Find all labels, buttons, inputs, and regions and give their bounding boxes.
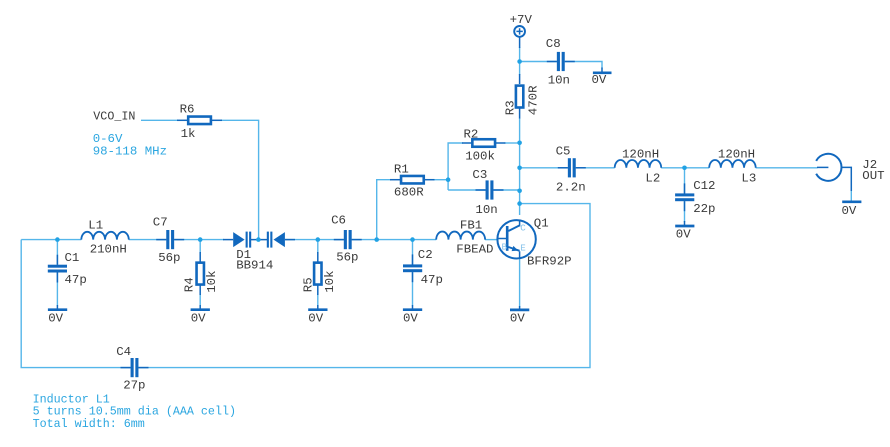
svg-text:Total width: 6mm: Total width: 6mm [33,417,145,431]
svg-text:2.2n: 2.2n [556,180,586,194]
svg-text:0V: 0V [48,312,63,326]
svg-text:47p: 47p [421,273,443,287]
svg-text:R6: R6 [180,102,195,116]
svg-text:10k: 10k [323,270,337,292]
svg-text:Q1: Q1 [534,216,549,230]
svg-text:56p: 56p [158,251,180,265]
svg-text:L1: L1 [88,219,103,233]
svg-text:C3: C3 [472,168,487,182]
svg-text:0V: 0V [842,204,857,218]
svg-text:0V: 0V [592,73,607,87]
svg-text:FB1: FB1 [460,219,482,233]
svg-text:C: C [520,223,526,234]
svg-text:0V: 0V [403,312,418,326]
svg-text:R3: R3 [503,100,517,115]
svg-text:R2: R2 [464,127,479,141]
svg-text:0V: 0V [510,311,525,325]
svg-text:10n: 10n [475,203,497,217]
svg-text:10k: 10k [205,270,219,292]
svg-text:0V: 0V [308,312,323,326]
svg-text:C6: C6 [331,213,346,227]
svg-text:1k: 1k [181,127,196,141]
svg-text:BFR92P: BFR92P [527,255,572,269]
svg-text:OUT: OUT [862,169,884,183]
svg-text:680R: 680R [394,186,424,200]
svg-text:120nH: 120nH [718,148,755,162]
svg-text:E: E [520,242,526,253]
svg-text:47p: 47p [65,273,87,287]
svg-text:R1: R1 [394,162,409,176]
svg-text:R4: R4 [183,277,197,292]
svg-text:C12: C12 [693,179,715,193]
svg-text:B: B [502,241,508,252]
svg-text:BB914: BB914 [236,258,273,272]
svg-text:22p: 22p [693,202,715,216]
svg-text:27p: 27p [123,379,145,393]
svg-text:FBEAD: FBEAD [456,243,493,257]
svg-text:C7: C7 [153,215,168,229]
svg-text:120nH: 120nH [622,148,659,162]
svg-text:0V: 0V [676,227,691,241]
svg-text:470R: 470R [527,85,541,115]
svg-text:VCO_IN: VCO_IN [93,110,135,124]
svg-text:0V: 0V [191,312,206,326]
svg-text:210nH: 210nH [90,243,127,257]
svg-text:10n: 10n [548,73,570,87]
svg-text:100k: 100k [465,150,495,164]
svg-text:C4: C4 [116,345,131,359]
svg-text:L2: L2 [645,172,660,186]
svg-text:C8: C8 [546,37,561,51]
svg-text:98-118 MHz: 98-118 MHz [93,144,167,158]
svg-text:+7V: +7V [510,13,533,27]
svg-text:C5: C5 [556,144,571,158]
svg-text:C2: C2 [418,248,433,262]
svg-text:C1: C1 [65,251,80,265]
svg-text:L3: L3 [741,172,756,186]
svg-text:R5: R5 [301,277,315,292]
svg-text:56p: 56p [336,250,358,264]
